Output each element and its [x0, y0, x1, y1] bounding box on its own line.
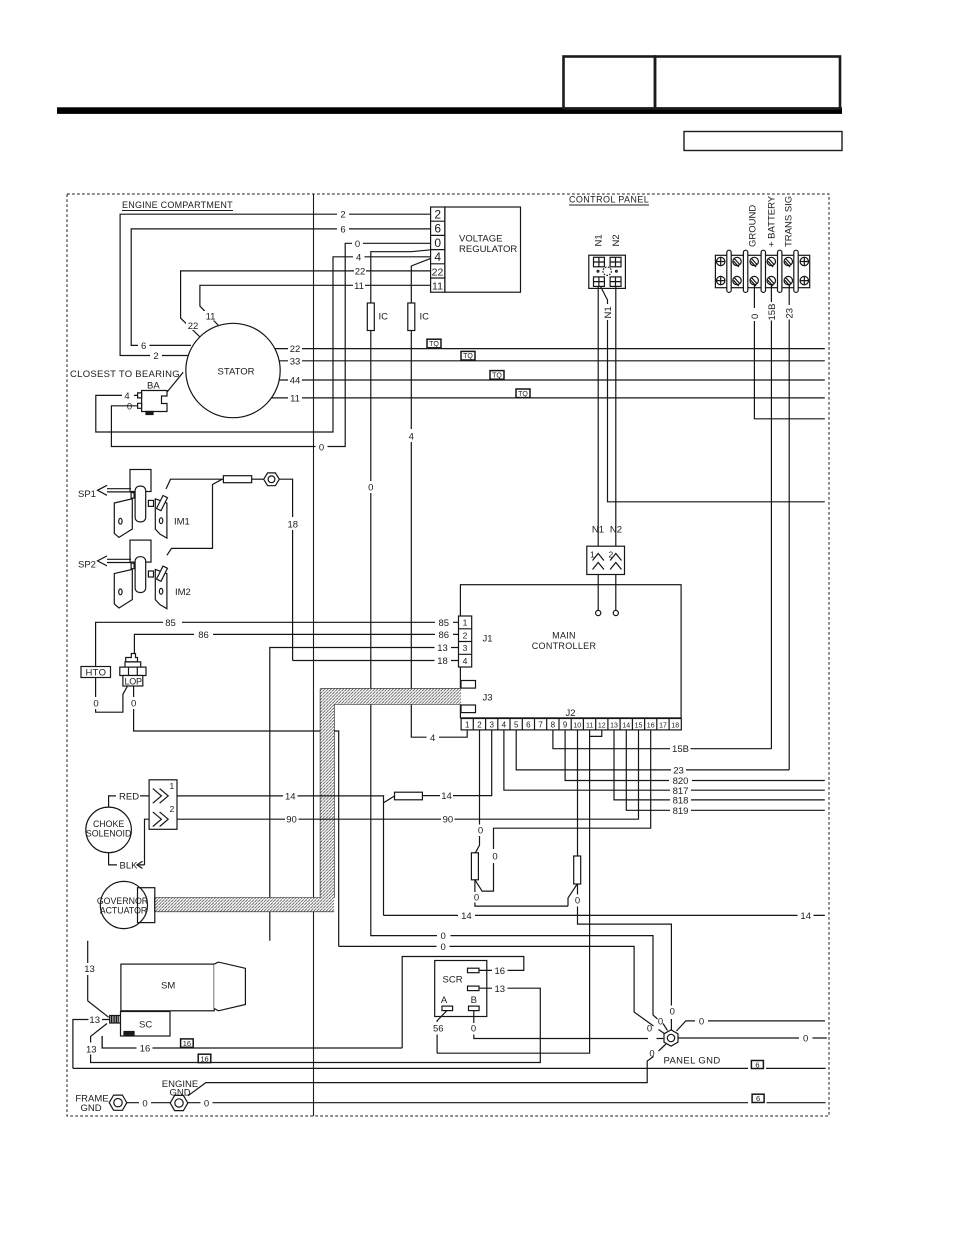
svg-text:18: 18 — [671, 723, 679, 730]
wire ignition (IM2 riser) — [167, 479, 222, 555]
svg-text:14: 14 — [800, 911, 811, 922]
connector J1 pins — [459, 616, 472, 667]
splice TQ labels — [429, 341, 528, 398]
wire 13 (SC stud feed) — [88, 1001, 109, 1017]
wire 15B (J2-8) — [553, 730, 772, 749]
svg-text:18: 18 — [288, 520, 299, 531]
svg-text:N1: N1 — [592, 525, 604, 536]
svg-text:9: 9 — [563, 721, 568, 730]
wire 56 (J2-11/12 to SCR A) — [437, 730, 602, 1053]
svg-text:1: 1 — [465, 721, 470, 730]
svg-text:4: 4 — [430, 733, 435, 744]
ignition module IM2 — [98, 540, 168, 609]
svg-text:SP1: SP1 — [78, 489, 96, 500]
wire 22 (stator right bus) — [275, 348, 825, 350]
choke solenoid — [86, 807, 132, 853]
wire 13 (SCR to SC) — [91, 988, 541, 1062]
wire 4 long vertical (IC2 to J2 pin1) — [411, 331, 467, 738]
svg-text:HTO: HTO — [86, 668, 107, 679]
svg-text:18: 18 — [437, 656, 448, 667]
svg-text:4: 4 — [124, 391, 129, 402]
svg-text:0: 0 — [204, 1098, 209, 1109]
svg-text:44: 44 — [290, 376, 301, 387]
svg-text:11: 11 — [432, 281, 443, 293]
svg-text:N1: N1 — [594, 234, 605, 246]
wire 0 (J2-10 to resistor R2) — [577, 730, 579, 856]
connector N1 N2 (sensor plug) — [589, 255, 626, 288]
wire 0 tap diagonal from VR terminal 0 — [371, 250, 431, 303]
svg-text:6: 6 — [141, 341, 146, 352]
svg-text:0: 0 — [319, 442, 324, 453]
svg-text:0: 0 — [492, 852, 497, 863]
wire 44 (stator right bus) — [279, 379, 825, 381]
diagram dashed border — [67, 194, 829, 1116]
svg-text:4: 4 — [409, 432, 414, 443]
wire 11 (VR terminal 11 to stator top) — [200, 285, 431, 326]
engine gnd hex nut — [170, 1095, 188, 1110]
svg-text:33: 33 — [290, 356, 301, 367]
svg-text:0: 0 — [441, 931, 446, 942]
svg-text:0: 0 — [474, 893, 479, 904]
svg-text:BA: BA — [147, 381, 160, 392]
svg-text:0: 0 — [803, 1034, 808, 1045]
svg-text:STATOR: STATOR — [218, 366, 255, 377]
splice box 16 (lower) — [198, 1054, 211, 1062]
svg-text:PANEL GND: PANEL GND — [664, 1056, 721, 1067]
svg-text:SM: SM — [161, 981, 175, 992]
svg-text:6: 6 — [434, 222, 441, 236]
J2 pin numbers — [465, 721, 679, 730]
svg-text:0: 0 — [575, 896, 580, 907]
SCR terminal 13 — [468, 986, 480, 991]
svg-text:TQ: TQ — [463, 353, 473, 360]
shield band (J3 to governor) — [155, 689, 461, 912]
svg-text:2: 2 — [153, 351, 158, 362]
svg-text:22: 22 — [432, 266, 444, 278]
svg-text:B: B — [471, 995, 477, 1006]
wire 0 (frame gnd to engine gnd) — [127, 1102, 170, 1104]
wire 15B (battery terminal drop) — [770, 285, 772, 749]
svg-text:0: 0 — [670, 1007, 675, 1018]
wire 18 (hex to J1-4) — [279, 479, 293, 660]
header rule — [57, 107, 842, 114]
svg-text:VOLTAGE: VOLTAGE — [459, 234, 502, 245]
svg-text:1: 1 — [463, 618, 468, 628]
svg-text:14: 14 — [441, 791, 452, 802]
svg-text:4: 4 — [356, 252, 361, 263]
svg-text:0: 0 — [434, 236, 441, 250]
header box right — [655, 57, 840, 109]
svg-text:N2: N2 — [611, 234, 622, 246]
svg-text:12: 12 — [598, 723, 606, 730]
svg-text:2: 2 — [170, 804, 175, 814]
label FRAME GND — [75, 1094, 108, 1115]
svg-text:CHOKE: CHOKE — [93, 819, 124, 829]
svg-text:86: 86 — [439, 630, 450, 641]
svg-text:23: 23 — [673, 766, 684, 777]
svg-text:6: 6 — [340, 224, 345, 235]
resistor R2 — [574, 856, 581, 884]
svg-text:819: 819 — [673, 806, 689, 817]
svg-text:13: 13 — [86, 1044, 97, 1055]
svg-text:TQ: TQ — [429, 341, 439, 348]
svg-text:86: 86 — [198, 630, 209, 641]
svg-text:13: 13 — [495, 984, 506, 995]
svg-text:11: 11 — [290, 393, 300, 404]
svg-text:SC: SC — [139, 1020, 152, 1031]
splice box 6 (lower) — [752, 1094, 764, 1102]
svg-text:13: 13 — [437, 643, 448, 654]
svg-text:ACTUATOR: ACTUATOR — [100, 906, 148, 916]
compartment divider wire — [313, 194, 315, 1116]
bearing assembly BA — [142, 391, 167, 412]
svg-text:0: 0 — [441, 942, 446, 953]
wire 86 (J1-2) — [134, 634, 458, 654]
connector J3 clamp — [461, 681, 476, 689]
switch HTO — [81, 667, 111, 678]
splice TQ2 — [461, 351, 475, 360]
wire 18 (J1-4) — [293, 660, 459, 662]
svg-text:11: 11 — [354, 281, 364, 292]
governor actuator — [100, 881, 147, 928]
wire 0 (panel gnd to engine gnd) — [188, 1044, 666, 1096]
splice TQ1 — [427, 339, 441, 348]
svg-text:TRANS SIG: TRANS SIG — [784, 196, 795, 247]
hex terminal nut — [264, 473, 280, 486]
svg-text:3: 3 — [463, 643, 468, 653]
wire 90 (choke pin2 to J2-15) — [177, 730, 639, 819]
svg-text:15B: 15B — [672, 744, 689, 755]
SC battery stud (knurled) — [110, 1016, 121, 1024]
svg-text:10: 10 — [573, 723, 581, 730]
ignition module IM1 — [98, 470, 168, 539]
starter motor SM — [121, 964, 214, 1011]
svg-text:1: 1 — [590, 550, 595, 560]
wire 0 (SCR B to panel gnd) — [474, 1011, 664, 1039]
svg-text:0: 0 — [368, 483, 373, 494]
svg-text:A: A — [441, 995, 448, 1006]
svg-text:22: 22 — [355, 266, 366, 277]
splice TQ4 — [516, 389, 530, 398]
svg-text:4: 4 — [463, 656, 468, 666]
svg-text:0: 0 — [478, 826, 483, 837]
svg-text:85: 85 — [439, 618, 450, 629]
wire 4 (VR terminal 4 to BA) — [96, 257, 431, 432]
wire BLK (choke to plug pin2) — [109, 819, 150, 865]
wire 23 (J2-5) — [516, 730, 789, 770]
wire 16 (SCR to SC) — [102, 957, 524, 1049]
svg-text:RED: RED — [119, 792, 139, 803]
svg-text:16: 16 — [495, 966, 506, 977]
header box left — [564, 57, 656, 109]
svg-text:IC: IC — [420, 312, 430, 323]
wire N2 (connector to heater 2) — [615, 286, 617, 546]
wire 0 long vertical (IC1 to panel gnd bus) — [371, 331, 668, 1031]
resistor IC1 — [367, 303, 374, 331]
svg-text:56: 56 — [433, 1024, 444, 1035]
svg-text:J2: J2 — [566, 708, 576, 719]
svg-text:1: 1 — [170, 781, 175, 791]
voltage regulator terminal cells — [431, 207, 445, 292]
svg-text:N1: N1 — [603, 306, 614, 318]
wire 13 (stud to left loop) — [73, 1020, 110, 1069]
svg-text:16: 16 — [200, 1055, 208, 1064]
wire RED (choke to plug pin1) — [109, 796, 150, 807]
frame gnd hex nut — [109, 1095, 127, 1110]
svg-text:CLOSEST TO BEARING: CLOSEST TO BEARING — [70, 369, 180, 380]
wire 818 (J2-13) — [614, 730, 825, 800]
svg-text:0: 0 — [699, 1017, 704, 1028]
svg-text:CONTROLLER: CONTROLLER — [532, 641, 597, 651]
svg-text:GOVERNOR: GOVERNOR — [97, 896, 148, 906]
svg-text:J3: J3 — [483, 693, 493, 704]
wire 0 (VR terminal 0 to BA) — [111, 243, 430, 446]
svg-text:818: 818 — [673, 796, 689, 807]
wire 23 (trans sig terminal drop) — [788, 285, 790, 770]
header small box — [684, 132, 842, 151]
terminal strip (GROUND / BATTERY / TRANS SIG) — [715, 250, 809, 292]
svg-text:0: 0 — [355, 239, 360, 250]
svg-text:MAIN: MAIN — [552, 631, 576, 641]
wire 0 (J2-2 to resistor R1) — [475, 730, 479, 853]
choke plug connector — [149, 780, 177, 830]
wire 14 long (to right stub) — [384, 914, 825, 916]
svg-text:13: 13 — [89, 1015, 100, 1026]
wire 2 (VR terminal 2 to stator) — [120, 214, 431, 355]
svg-text:17: 17 — [659, 723, 667, 730]
starter contactor SC — [121, 1012, 171, 1037]
wire 0 bus (bottom long) — [73, 1067, 826, 1069]
wire 85 (J1-1) — [96, 622, 459, 666]
svg-text:16: 16 — [140, 1043, 151, 1054]
svg-text:CONTROL PANEL: CONTROL PANEL — [569, 195, 649, 205]
svg-text:16: 16 — [183, 1039, 191, 1048]
wire 56 (SCR A drop) — [437, 1011, 447, 1054]
svg-text:6: 6 — [756, 1094, 760, 1103]
svg-text:3: 3 — [489, 721, 494, 730]
wire 0 (connector center tap to right stub) — [601, 286, 825, 501]
svg-text:6: 6 — [526, 721, 531, 730]
svg-text:2: 2 — [609, 550, 614, 560]
svg-text:16: 16 — [647, 723, 655, 730]
wire 6 (VR terminal 6 to stator) — [131, 229, 430, 346]
connector J2 pins — [461, 719, 681, 730]
svg-text:J1: J1 — [483, 634, 493, 645]
heater connector N1 N2 (zigzag) — [587, 546, 625, 574]
svg-text:0: 0 — [93, 699, 98, 710]
svg-text:22: 22 — [290, 344, 301, 355]
svg-text:2: 2 — [477, 721, 482, 730]
svg-text:13: 13 — [610, 723, 618, 730]
wire 0 (LOP drop to panel gnd) — [134, 686, 665, 1034]
svg-text:15: 15 — [635, 723, 643, 730]
wire 817 (J2-4) — [504, 730, 825, 790]
VR wire number labels — [340, 210, 365, 292]
svg-text:ENGINE COMPARTMENT: ENGINE COMPARTMENT — [122, 200, 233, 210]
panel gnd hex nut — [664, 1030, 678, 1046]
svg-text:IC: IC — [379, 312, 389, 323]
svg-text:0: 0 — [649, 1049, 654, 1060]
svg-text:90: 90 — [286, 815, 297, 826]
svg-text:SOLENOID: SOLENOID — [86, 829, 131, 839]
wire 14 (resistor to J2-3) — [422, 730, 491, 796]
wire heater1 to controller contact — [597, 575, 599, 611]
wire 11 (stator right bus) — [271, 397, 824, 399]
svg-text:GROUND: GROUND — [748, 205, 759, 247]
wire 14/90 labels (choke) — [285, 791, 453, 826]
wire 13 (J1-3) — [88, 648, 459, 1001]
svg-text:0: 0 — [471, 1024, 476, 1035]
svg-text:REGULATOR: REGULATOR — [459, 244, 517, 255]
J1 wire labels — [165, 618, 449, 667]
terminal end screws — [716, 257, 809, 286]
terminal screws (hatched) — [733, 257, 793, 286]
sender LOP — [126, 654, 138, 662]
svg-text:0: 0 — [127, 402, 132, 413]
wire 0 (R2 bottom paths) — [568, 884, 671, 1030]
SCR box — [435, 961, 487, 1017]
wire 16 (SC drop) — [101, 1036, 103, 1048]
svg-text:IM2: IM2 — [175, 587, 191, 598]
svg-text:23: 23 — [785, 308, 796, 319]
svg-text:11: 11 — [206, 312, 216, 323]
wire ignition (IM1 to suppressor) — [166, 479, 223, 489]
wire 0 (ground terminal stub) — [754, 285, 824, 419]
controller contact circle 1 — [596, 610, 601, 615]
splice TQ3 — [490, 371, 504, 380]
splice box 6 (upper) — [751, 1061, 763, 1069]
svg-text:14: 14 — [461, 911, 472, 922]
wire 0 (panel gnd upper-right stub) — [677, 1021, 826, 1031]
wire 0 (R1 bottom to J2-16) — [475, 730, 651, 891]
svg-text:4: 4 — [434, 250, 441, 264]
svg-text:5: 5 — [514, 721, 519, 730]
resistor IC2 — [408, 303, 415, 331]
svg-text:22: 22 — [188, 321, 199, 332]
svg-text:90: 90 — [443, 815, 454, 826]
svg-text:LOP: LOP — [125, 677, 143, 687]
svg-text:2: 2 — [434, 208, 441, 222]
wire 820 (J2-9) — [565, 730, 825, 781]
wire 4 tap diagonal from VR terminal 4 — [411, 258, 430, 303]
svg-text:14: 14 — [285, 791, 296, 802]
svg-text:+ BATTERY: + BATTERY — [767, 195, 778, 247]
right-side wire labels — [461, 744, 811, 922]
svg-text:TQ: TQ — [492, 372, 502, 379]
svg-text:7: 7 — [538, 721, 543, 730]
SCR terminal A — [442, 1006, 453, 1011]
wire 22 (VR terminal 22 to stator top) — [181, 271, 431, 339]
wire 0 (HTO to LOP loop) — [96, 678, 128, 713]
svg-text:BLK: BLK — [120, 861, 139, 872]
svg-text:0: 0 — [131, 699, 136, 710]
svg-text:4: 4 — [502, 721, 507, 730]
svg-text:SP2: SP2 — [78, 560, 96, 571]
svg-text:SCR: SCR — [443, 975, 463, 986]
dropping resistor (wire 14) — [395, 792, 423, 800]
voltage regulator box — [445, 207, 521, 292]
bearing leader line — [167, 372, 183, 392]
svg-text:0: 0 — [647, 1024, 652, 1035]
SCR terminal 16 — [468, 968, 480, 973]
svg-text:85: 85 — [165, 618, 176, 629]
resistor R1 — [471, 853, 478, 880]
wire 0 labels (resistor cluster) — [441, 826, 581, 954]
SCR terminal B — [469, 1006, 480, 1011]
svg-text:IM1: IM1 — [174, 517, 190, 528]
wire heater2 to controller contact — [615, 575, 617, 611]
splice box 16 (upper) — [181, 1039, 194, 1047]
stator — [186, 323, 280, 417]
controller contact circle 2 — [613, 610, 618, 615]
wire N1 (connector to heater 1) — [597, 286, 599, 546]
svg-text:6: 6 — [755, 1060, 759, 1069]
label GOVERNOR ACTUATOR — [97, 896, 148, 916]
VR terminal numbers — [432, 208, 444, 293]
svg-text:13: 13 — [84, 964, 95, 975]
svg-text:8: 8 — [551, 721, 556, 730]
label CHOKE SOLENOID — [86, 819, 131, 839]
wire 0 (engine gnd bus right) — [188, 1102, 826, 1104]
label ENGINE GND — [162, 1079, 198, 1099]
svg-text:2: 2 — [463, 630, 468, 640]
wire 0 (panel gnd right stub) — [678, 1037, 827, 1039]
stator wire labels — [186, 321, 200, 331]
svg-text:11: 11 — [586, 723, 593, 730]
svg-text:2: 2 — [340, 210, 345, 221]
svg-text:N2: N2 — [610, 525, 622, 536]
svg-text:15B: 15B — [767, 304, 778, 321]
svg-text:0: 0 — [142, 1098, 147, 1109]
svg-text:0: 0 — [750, 314, 761, 319]
suppressor resistor — [223, 476, 251, 483]
wire 33 (stator right bus) — [279, 360, 825, 362]
svg-text:GND: GND — [80, 1103, 101, 1114]
wire 819 (J2-14) — [626, 730, 825, 810]
wire 0 (R1 bottom drop) — [475, 880, 568, 906]
svg-text:14: 14 — [622, 723, 630, 730]
svg-text:GND: GND — [169, 1088, 190, 1099]
main controller box — [460, 585, 681, 718]
wire to hex terminal — [252, 478, 265, 480]
wire 14 (choke pin1 across) — [177, 796, 395, 916]
svg-text:TQ: TQ — [518, 391, 528, 398]
svg-text:0: 0 — [658, 1017, 663, 1028]
